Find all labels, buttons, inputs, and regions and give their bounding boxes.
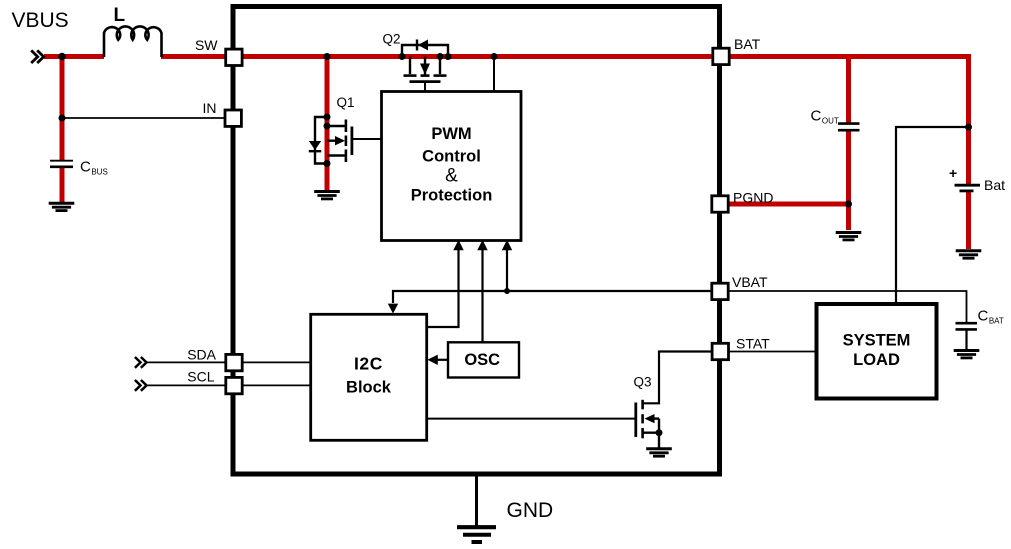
label GND xyxy=(507,499,554,522)
wire I2C to Q3 gate xyxy=(427,418,636,420)
label COUT xyxy=(811,108,839,126)
transistor Q2 body diode loop xyxy=(402,45,448,57)
label L xyxy=(114,5,126,26)
wire GND stem xyxy=(475,474,478,526)
svg-text:Q3: Q3 xyxy=(634,375,652,390)
label Q1 xyxy=(337,95,355,110)
chevron SCL input xyxy=(135,380,147,391)
label Q3 xyxy=(634,375,652,390)
inductor L xyxy=(104,26,162,57)
wire red battery to ground xyxy=(966,192,971,250)
label IN xyxy=(203,100,217,116)
node Q1 bus junction xyxy=(324,53,331,60)
label Q2 xyxy=(383,32,401,47)
label SDA xyxy=(187,347,216,363)
svg-text:SDA: SDA xyxy=(187,347,216,363)
transistor Q1 MOSFET xyxy=(327,120,382,163)
wire SDA inside xyxy=(243,361,311,363)
capacitor COUT xyxy=(838,124,860,131)
pin IN xyxy=(225,110,241,126)
svg-text:GND: GND xyxy=(507,499,554,522)
node Q1 diode top xyxy=(324,114,331,121)
label PGND xyxy=(733,190,773,206)
svg-text:IN: IN xyxy=(203,100,217,116)
svg-text:PWM: PWM xyxy=(431,125,471,143)
svg-text:Block: Block xyxy=(346,379,392,397)
wire red main bus VBUS to SW to BAT to battery xyxy=(44,57,969,185)
label Bat xyxy=(984,177,1005,193)
transistor Q2 diode xyxy=(417,40,428,51)
ground GND main xyxy=(457,527,496,542)
capacitor CBUS xyxy=(50,161,73,167)
svg-text:CBAT: CBAT xyxy=(978,308,1004,326)
ground under CBAT xyxy=(954,351,980,358)
node PGND COUT xyxy=(845,201,852,208)
wire STAT internal to Q3 drain xyxy=(644,352,711,404)
wire SCL inside xyxy=(243,384,311,386)
pin SCL xyxy=(226,377,242,393)
box OSC U-OSC xyxy=(448,342,519,377)
svg-text:Control: Control xyxy=(422,148,481,166)
svg-text:Q2: Q2 xyxy=(383,32,401,47)
transistor Q1 body diode loop xyxy=(315,117,327,164)
node Q3 source xyxy=(656,429,663,436)
wire arrow OSC to I2C xyxy=(427,355,447,365)
transistor Q3 MOSFET xyxy=(636,400,659,448)
label SCL xyxy=(187,369,214,385)
wire SCL outside xyxy=(146,384,225,386)
node Q1 diode bottom xyxy=(324,160,331,167)
box PWM Control and Protection U-PWM xyxy=(382,92,522,241)
svg-text:PGND: PGND xyxy=(733,190,773,206)
ground under battery xyxy=(956,251,982,258)
svg-text:&: & xyxy=(445,166,458,187)
label battery plus xyxy=(949,165,957,181)
node Q2 diode right xyxy=(445,53,452,60)
svg-text:SW: SW xyxy=(195,37,218,53)
box SYSTEM LOAD xyxy=(817,304,937,399)
label VBUS xyxy=(12,9,69,32)
wire IN line xyxy=(62,117,225,119)
svg-text:COUT: COUT xyxy=(811,108,839,126)
svg-text:Bat: Bat xyxy=(984,177,1005,193)
wire arrow I2C to PWM xyxy=(427,240,464,327)
pin STAT xyxy=(712,343,728,359)
svg-text:VBUS: VBUS xyxy=(12,9,69,32)
pin BAT xyxy=(713,48,729,64)
pin PGND xyxy=(712,196,728,212)
pin VBAT xyxy=(712,283,728,299)
wire bus tap to PWM top xyxy=(493,57,495,92)
wire arrow OSC to PWM xyxy=(477,240,487,342)
node Q1 drain xyxy=(324,123,331,130)
svg-text:LOAD: LOAD xyxy=(853,351,900,369)
label VBAT xyxy=(732,274,768,290)
svg-text:SCL: SCL xyxy=(187,369,214,385)
svg-text:CBUS: CBUS xyxy=(80,159,108,177)
label SW xyxy=(195,37,218,53)
svg-text:I2C: I2C xyxy=(354,354,383,374)
label CBUS xyxy=(80,159,108,177)
capacitor CBAT xyxy=(956,323,978,329)
wire CBAT to ground xyxy=(965,329,967,349)
chevron SDA input xyxy=(135,357,147,368)
transistor Q2 MOSFET xyxy=(404,57,447,92)
svg-text:OSC: OSC xyxy=(464,351,500,369)
pin SW xyxy=(226,49,242,65)
svg-text:Protection: Protection xyxy=(411,187,493,205)
svg-text:SYSTEM: SYSTEM xyxy=(843,332,911,350)
ground under CBUS xyxy=(49,203,75,210)
svg-text:Q1: Q1 xyxy=(337,95,355,110)
svg-text:STAT: STAT xyxy=(736,336,770,352)
svg-text:BAT: BAT xyxy=(734,36,761,52)
label STAT xyxy=(736,336,770,352)
node bus PWM tap xyxy=(491,53,498,60)
pin SDA xyxy=(226,354,242,370)
node VBUS junction xyxy=(58,53,66,61)
wire VBAT internal feedback xyxy=(393,291,711,303)
svg-text:L: L xyxy=(114,5,126,26)
wire SDA outside xyxy=(146,361,225,363)
chevron VBUS input xyxy=(31,50,44,63)
transistor Q1 diode xyxy=(309,141,321,151)
ground under COUT xyxy=(836,233,862,240)
svg-text:VBAT: VBAT xyxy=(732,274,768,290)
node Q2 source xyxy=(437,53,444,60)
wire battery node to SYSTEM LOAD xyxy=(896,127,969,304)
svg-text:+: + xyxy=(949,165,957,181)
wire red COUT branch xyxy=(846,57,851,231)
ground under Q1 xyxy=(314,192,340,199)
label BAT xyxy=(734,36,761,52)
wire VBAT outside to CBAT xyxy=(728,291,967,322)
node battery plus xyxy=(965,124,972,131)
IC block outline xyxy=(233,7,720,475)
box I2C Block xyxy=(311,314,427,440)
ground under Q3 xyxy=(646,449,672,456)
node Q2 diode left xyxy=(399,53,406,60)
node VBAT sense xyxy=(504,288,510,294)
wire arrow node to PWM bottom xyxy=(502,240,512,291)
label CBAT xyxy=(978,308,1004,326)
wire STAT to SYSTEM LOAD xyxy=(728,351,817,353)
wire red PGND to COUT node xyxy=(728,202,850,207)
wire red Q1 branch to ground xyxy=(325,57,330,191)
wire arrow VBAT sense into I2C top xyxy=(388,304,398,314)
battery Bat xyxy=(955,185,981,191)
node IN junction xyxy=(59,115,66,122)
wire red VBUS junction down to CBUS xyxy=(60,54,65,202)
